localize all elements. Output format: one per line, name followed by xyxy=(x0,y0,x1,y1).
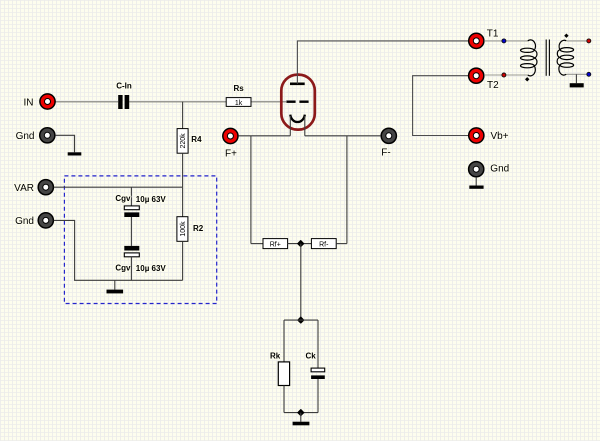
svg-text:Cgv: Cgv xyxy=(115,194,131,203)
wire F- branch down xyxy=(346,136,348,244)
node blue dot right xyxy=(587,72,591,76)
ground stub in box xyxy=(114,280,116,289)
junction node Rk top xyxy=(298,317,304,323)
wire VAR to R2 column xyxy=(54,186,183,188)
ground bar top-left xyxy=(68,152,82,155)
wire junction down to R4 xyxy=(182,102,184,129)
wire Ck to bottom rail xyxy=(317,379,319,413)
svg-text:10µ 63V: 10µ 63V xyxy=(136,195,167,204)
wire Cgv bottom to rail xyxy=(130,257,132,281)
terminal Gnd var xyxy=(38,213,53,228)
svg-text:T1: T1 xyxy=(487,29,499,40)
capacitor Cgv top xyxy=(124,206,139,217)
wire F+ to left leg xyxy=(238,135,290,137)
wire Rk Ck bottom rail xyxy=(284,412,318,414)
terminal T2 xyxy=(469,68,484,83)
terminal Gnd right xyxy=(469,162,484,177)
ground bar in box xyxy=(107,290,124,294)
svg-text:Rs: Rs xyxy=(233,84,244,93)
wire C-In to Rs xyxy=(129,101,226,103)
capacitor Ck xyxy=(311,368,325,379)
ground bar secondary xyxy=(570,83,584,87)
ground stub bottom xyxy=(300,413,302,422)
svg-text:Vb+: Vb+ xyxy=(491,131,509,142)
svg-text:Gnd: Gnd xyxy=(16,131,35,142)
wire to Rk xyxy=(283,320,285,362)
wire R4 to VAR row xyxy=(182,153,184,187)
junction node Rk bottom xyxy=(298,410,304,416)
svg-text:100k: 100k xyxy=(180,221,187,237)
wire VAR row to R2 xyxy=(182,187,184,217)
capacitor Cgv bottom xyxy=(124,246,139,257)
wire to Ck xyxy=(317,320,319,368)
svg-text:T2: T2 xyxy=(487,80,499,91)
wire between Cgv caps xyxy=(130,217,132,246)
wire Gnd var to bottom rail xyxy=(54,220,183,280)
svg-text:F+: F+ xyxy=(225,149,237,160)
wire T2 to Vb+ xyxy=(413,76,469,136)
svg-text:R4: R4 xyxy=(191,135,202,144)
wire F+ branch down xyxy=(250,136,252,244)
terminal IN xyxy=(40,94,55,109)
wire Rk Ck top rail xyxy=(284,319,318,321)
transformer core xyxy=(546,40,549,76)
resistor R4 xyxy=(177,129,188,154)
terminal T1 xyxy=(469,33,484,48)
wire IN to C-In xyxy=(56,101,119,103)
svg-text:IN: IN xyxy=(24,97,34,108)
svg-text:Gnd: Gnd xyxy=(490,164,509,175)
svg-text:Rk: Rk xyxy=(270,351,281,360)
resistor Rs xyxy=(226,98,251,107)
wire to Rf+ xyxy=(251,243,263,245)
node red dot left xyxy=(502,73,506,77)
triode tube V1 xyxy=(281,75,315,130)
wire Rf+ to Rf- xyxy=(288,243,312,245)
ground bar bottom xyxy=(293,422,310,426)
terminal Gnd top-left xyxy=(40,128,55,143)
terminal VAR xyxy=(38,180,53,195)
wire secondary bottom lead xyxy=(567,73,587,75)
svg-text:Rf-: Rf- xyxy=(319,241,329,248)
ground stub right xyxy=(475,177,477,185)
node diamond primary xyxy=(525,77,529,81)
capacitor C-In xyxy=(118,95,129,109)
svg-text:R2: R2 xyxy=(193,224,204,233)
junction node Rf xyxy=(298,241,304,247)
ground stub secondary xyxy=(575,74,577,83)
wire right leg to F- xyxy=(305,135,381,137)
node blue dot left xyxy=(502,39,506,43)
dashed selection box xyxy=(64,176,216,304)
tube filament legs xyxy=(290,116,305,136)
wire T1 to transformer xyxy=(484,40,528,42)
svg-text:220k: 220k xyxy=(180,133,187,149)
wire Rs to tube grid xyxy=(251,101,286,103)
terminal F- xyxy=(381,128,396,143)
resistor Rk xyxy=(278,362,289,386)
ground bar right xyxy=(469,186,483,189)
svg-text:10µ 63V: 10µ 63V xyxy=(136,264,167,273)
transformer secondary coil xyxy=(557,40,573,75)
wire Rk to bottom rail xyxy=(283,386,285,413)
node diamond secondary xyxy=(564,34,568,38)
svg-text:C-In: C-In xyxy=(116,82,132,91)
wire R2 to bottom rail xyxy=(182,241,184,280)
wire Rf- to right branch xyxy=(336,243,347,245)
wire Rf junction down xyxy=(300,244,302,321)
svg-text:Cgv: Cgv xyxy=(115,264,131,273)
terminal Vb+ xyxy=(469,128,484,143)
svg-text:Rf+: Rf+ xyxy=(270,241,281,248)
wire Gnd to ground xyxy=(55,135,74,152)
terminal F+ xyxy=(223,128,238,143)
wire Cgv branch top xyxy=(130,187,132,206)
svg-text:Gnd: Gnd xyxy=(15,216,34,227)
transformer primary coil xyxy=(521,40,537,76)
wire secondary top lead xyxy=(567,40,587,42)
wire T2 to transformer xyxy=(484,74,528,76)
svg-text:1k: 1k xyxy=(235,100,243,107)
svg-text:Ck: Ck xyxy=(306,351,317,360)
resistor Rf+ xyxy=(263,239,288,249)
resistor Rf- xyxy=(311,239,336,249)
node red dot right xyxy=(587,39,591,43)
svg-text:VAR: VAR xyxy=(14,183,34,194)
resistor R2 xyxy=(177,217,188,242)
tube plate wire to T1 xyxy=(297,41,468,84)
svg-text:F-: F- xyxy=(381,148,390,159)
